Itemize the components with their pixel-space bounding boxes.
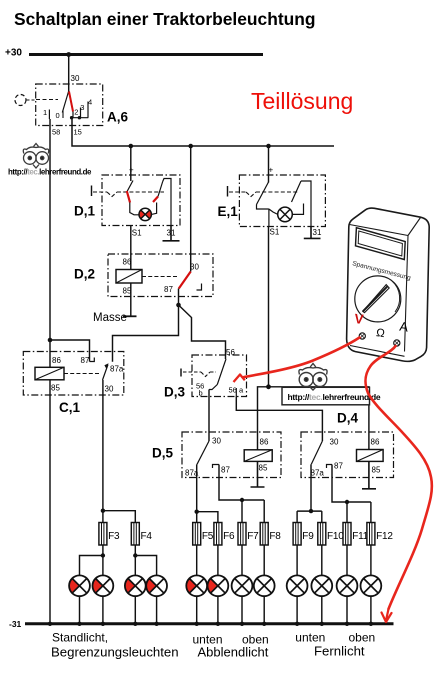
junction dot C1-85 on minus bus (48, 622, 52, 626)
A6 actuator link dashes (27, 99, 36, 101)
E1 actuator T-bar (227, 186, 229, 197)
wire D4 87a down (310, 464, 312, 511)
multimeter jack COM (394, 340, 400, 346)
svg-text:b: b (199, 389, 203, 398)
svg-text:V: V (354, 311, 365, 327)
svg-text:unten: unten (295, 631, 325, 645)
wire D3 56b down to D5 30 (208, 390, 210, 442)
D1 switch arm1 black (127, 181, 133, 193)
watermark owl right (299, 364, 327, 391)
svg-text:87: 87 (334, 462, 343, 471)
svg-text:56: 56 (229, 386, 237, 395)
relay D2 box (108, 254, 213, 297)
lamp E1 cross (280, 209, 290, 219)
svg-text:86: 86 (52, 356, 61, 365)
watermark owl left (23, 144, 48, 169)
wire D5 coil 85 to ground (251, 461, 265, 487)
wire D3 56a down right to D4 30 (236, 397, 322, 442)
wire D1 S1 down to D2 coil 86 (130, 226, 132, 270)
lamp L6 (207, 578, 217, 593)
fuse F12 (367, 523, 375, 546)
svg-text:S1: S1 (132, 229, 142, 238)
wire lamp L5 to minus bus (196, 596, 198, 623)
wire D1 feed (130, 146, 132, 181)
wire lamp L3 to minus bus (134, 596, 136, 623)
lamp L3 (125, 578, 135, 593)
C1 87 hook (90, 358, 95, 362)
fuse feed bridge F9 F10 (309, 509, 313, 513)
fuse F5 (193, 523, 201, 546)
svg-text:A,6: A,6 (107, 110, 129, 125)
svg-text:87: 87 (221, 466, 230, 475)
D1 switch arm2 red (153, 197, 158, 203)
lamp L7 (232, 575, 253, 596)
lamp L10 (311, 575, 332, 596)
relay D5 box (182, 432, 281, 478)
fuse F10 (318, 523, 326, 546)
junction below D2 (176, 303, 181, 308)
multimeter display window outer (356, 228, 406, 260)
svg-text:F3: F3 (108, 531, 120, 542)
wire D2 30 feed (190, 146, 192, 272)
wire D5 87 down right to F7 F8 (219, 465, 264, 501)
svg-text:86: 86 (371, 438, 380, 447)
svg-text:Fernlicht: Fernlicht (314, 644, 365, 659)
red probe tip at 56a (234, 375, 245, 383)
D1 wire arm1 to lamp (130, 203, 139, 215)
lamp D1 cross (141, 210, 150, 219)
multimeter dial circle (355, 276, 401, 322)
wire terminal 58 down to C1 coil 86 (49, 119, 51, 367)
A6 switch arm red to 2 (69, 92, 73, 112)
C1 switch arm with arrow to 87a (103, 365, 109, 381)
lamp unit D1 box (102, 175, 180, 226)
D2 spare terminal hook (197, 284, 202, 291)
svg-text:87: 87 (164, 285, 173, 294)
C1 dashed link (64, 373, 100, 375)
wire branch diagonal to D3 (179, 305, 226, 359)
svg-text:F10: F10 (327, 531, 344, 542)
lamp L9 (287, 575, 308, 596)
wire lamp L8 to minus bus (263, 596, 265, 623)
watermark url right box (282, 387, 370, 405)
E1 dashed link with notch (229, 192, 298, 197)
E1 switch arm2 (292, 181, 302, 202)
svg-text:Schaltplan einer Traktorbeleuc: Schaltplan einer Traktorbeleuchtung (14, 9, 316, 29)
D1 switch arm1 red (127, 191, 130, 203)
lamp L11 (337, 575, 358, 596)
relay coil D4 (357, 450, 384, 462)
fuse F9 (293, 523, 301, 546)
A6 inner dashed link (36, 99, 58, 101)
wire junction to D5 coil 86 (258, 387, 269, 450)
wire F6 to lamp (217, 545, 219, 575)
svg-text:S1: S1 (270, 228, 280, 237)
switch D3 box (192, 355, 247, 397)
wire F3 to lamp pair bridge (102, 545, 104, 575)
D1 wire arm2 top to terminal 31 (163, 179, 171, 226)
junction dot D2-30 feed (188, 144, 193, 149)
svg-text:F4: F4 (141, 531, 153, 542)
D5 switch arm (197, 441, 209, 464)
relay D4 box (301, 432, 394, 478)
lamp D1 red left sector (139, 210, 145, 219)
wire E1 S1 down to junction (268, 227, 270, 387)
wire lamp L7 to minus bus (241, 596, 243, 623)
lamp D1 circle (139, 208, 151, 220)
lamp L5 (186, 578, 196, 593)
D1 switch arm2 black (158, 182, 163, 197)
wire lamp L4 to minus bus (156, 596, 158, 623)
wire F4 to lamp pair bridge (134, 545, 136, 575)
multimeter bottom inner edge (350, 346, 405, 357)
svg-text:F7: F7 (247, 531, 259, 542)
wire lamp L9 to minus bus (296, 596, 298, 623)
svg-text:F8: F8 (269, 531, 281, 542)
wire lamp L12 to minus bus (370, 596, 372, 623)
wire D2 common down (178, 289, 180, 306)
D5 87 hook (213, 465, 220, 469)
svg-text:56: 56 (226, 348, 235, 357)
D2 switch arm red (179, 272, 191, 289)
svg-text:D,5: D,5 (152, 446, 174, 461)
svg-text:D,2: D,2 (74, 267, 95, 282)
wire F10 to lamp (321, 545, 323, 575)
junction E1-S1 D-coil feed (266, 384, 271, 389)
multimeter display window inner (358, 231, 402, 256)
D1 actuator T-bar (91, 186, 93, 197)
D4 switch arm (311, 441, 322, 464)
D3 56b elbow (209, 385, 217, 390)
svg-text:D,4: D,4 (337, 411, 359, 426)
relay coil D5 (244, 450, 272, 462)
svg-text:86: 86 (260, 438, 269, 447)
wire lamp L6 to minus bus (217, 596, 219, 623)
fuse F4 (131, 523, 139, 546)
fuse drops F11 F12 (346, 502, 348, 523)
svg-text:15: 15 (74, 128, 82, 137)
svg-text:87a: 87a (110, 365, 124, 374)
lamp L1 (69, 578, 79, 593)
svg-text:+: + (269, 166, 274, 175)
wire D5 87a down (196, 464, 198, 511)
wire F9 to lamp (296, 545, 298, 575)
multimeter dial arc (392, 281, 400, 312)
fuse F8 (260, 523, 268, 546)
E1 ground 31 (304, 227, 321, 239)
wire branch to C1 87a (113, 305, 179, 362)
svg-text:C,1: C,1 (59, 400, 81, 415)
svg-text:F6: F6 (223, 531, 235, 542)
wire F11 to lamp (346, 545, 348, 575)
svg-text:1: 1 (43, 108, 47, 117)
fuse F6 (214, 523, 222, 546)
svg-text:30: 30 (330, 438, 339, 447)
svg-text:Standlicht,: Standlicht, (52, 631, 108, 645)
svg-text:-31: -31 (9, 619, 22, 629)
svg-text:30: 30 (212, 437, 221, 446)
multimeter pointer (363, 285, 389, 313)
svg-text:58: 58 (52, 128, 60, 137)
wire lamp L10 to minus bus (321, 596, 323, 623)
D3 switch arm (217, 359, 226, 385)
svg-text:Teillösung: Teillösung (251, 88, 353, 114)
svg-text:oben: oben (349, 631, 376, 645)
multimeter face ridge right (405, 218, 421, 352)
D4 87 hook (327, 465, 333, 469)
D3 dashed link with notch (183, 372, 216, 377)
D2 dashed link coil to switch (142, 276, 177, 278)
lamp D1 red right sector (145, 210, 151, 219)
A6 pin 0 tick (62, 111, 64, 119)
switch A6 box (36, 84, 103, 126)
wire junction to D4 coil 86 (269, 387, 369, 450)
wire F8 to lamp (263, 545, 265, 575)
wire terminal 15 down then right: feed bus (72, 118, 334, 146)
svg-text:http://tec.lehrerfreund.de: http://tec.lehrerfreund.de (8, 168, 92, 177)
wire F12 to lamp (370, 545, 372, 575)
junction dot D1 feed (129, 144, 134, 149)
svg-text:87a: 87a (311, 469, 325, 478)
multimeter face ridge top (350, 225, 409, 236)
svg-text:F12: F12 (376, 531, 393, 542)
E1 switch arm1 (257, 182, 269, 205)
E1 wire lamp right hook (292, 204, 303, 215)
svg-text:E,1: E,1 (218, 204, 239, 219)
wire lamp L2 to minus bus (102, 596, 104, 623)
wire F5 to lamp (196, 545, 198, 575)
svg-text:Begrenzungsleuchten: Begrenzungsleuchten (51, 645, 179, 660)
wire to C1 87 (50, 340, 90, 362)
lamp L4 (146, 578, 156, 593)
wire from +30 to switch A6 terminal 30 (68, 55, 70, 92)
relay C1 box (23, 352, 124, 396)
svg-text:D,3: D,3 (164, 385, 186, 400)
wire bus +30 (29, 53, 263, 56)
red test lead right jack to minus bus arrow (365, 346, 431, 609)
svg-text:F5: F5 (202, 531, 214, 542)
fuse feed bridge F5 F6 (195, 510, 199, 514)
fuse F7 (238, 523, 246, 546)
multimeter body (347, 208, 430, 361)
svg-text:0: 0 (56, 111, 60, 120)
ground Masse bar (123, 315, 137, 317)
svg-text:87: 87 (81, 356, 90, 365)
svg-text:30: 30 (105, 385, 114, 394)
A6 pin 1 tick (48, 110, 50, 120)
red test lead left jack to probe at D3 56a (244, 338, 360, 378)
A6 pins 2-3-4 staircase (71, 102, 89, 118)
svg-text:+30: +30 (5, 48, 22, 59)
svg-text:85: 85 (51, 384, 60, 393)
E1 wire arm1 junction S1 lamp (257, 205, 278, 227)
fuse F3 (99, 523, 107, 546)
lamp E1 circle (278, 207, 293, 222)
svg-text:30: 30 (71, 74, 80, 83)
svg-text:F9: F9 (302, 531, 314, 542)
wire D2 coil 85 to Masse (130, 283, 132, 316)
svg-text:86: 86 (123, 258, 132, 267)
lamp L8 (254, 575, 275, 596)
A6 actuator circle (15, 95, 26, 106)
svg-text:4: 4 (88, 98, 92, 107)
red arrowhead at minus bus (382, 609, 392, 622)
svg-text:2: 2 (74, 108, 78, 117)
D1 ground 31 (163, 226, 180, 241)
junction dot E1 feed (266, 144, 271, 149)
wire D3 56a tick (235, 388, 237, 397)
wire E1 feed (268, 146, 270, 183)
D1 wire lamp to arm2 (151, 203, 156, 215)
D3 actuator T-bar (180, 369, 182, 377)
wire F7 to lamp (241, 545, 243, 575)
E1 wire arm2 to 31 (301, 181, 311, 227)
wire lamp L11 to minus bus (346, 596, 348, 623)
svg-text:85: 85 (372, 466, 381, 475)
fuse F11 (343, 523, 351, 546)
wire C1 coil 85 down to minus bus (49, 380, 51, 623)
svg-text:Abblendlicht: Abblendlicht (198, 645, 269, 660)
svg-text:31: 31 (313, 228, 322, 237)
D1 dashed link with notch (93, 192, 164, 197)
junction dot on 58-line for C1 87 (48, 338, 53, 343)
relay coil C1 (35, 367, 64, 380)
lamp unit E1 box (239, 175, 325, 227)
fuse feed bridge F3 F4 (101, 509, 105, 513)
svg-text:Masse: Masse (93, 312, 127, 324)
svg-text:3: 3 (80, 103, 84, 112)
relay coil D2 (116, 270, 142, 284)
lamp L2 (92, 578, 102, 593)
fuse drops F7 F8 (241, 500, 243, 523)
svg-text:85: 85 (259, 464, 268, 473)
wire D4 87 down right to F11 F12 (332, 465, 371, 503)
lamp L12 (361, 575, 382, 596)
svg-text:D,1: D,1 (74, 204, 96, 219)
junction on +30 bus (66, 52, 71, 57)
multimeter jack V (359, 333, 365, 339)
A6 switch arm black to 0 (62, 91, 68, 113)
wire lamp L1 to minus bus (79, 596, 81, 623)
wire C1 common 30 down to fuse feed (102, 380, 104, 511)
wire D4 coil 85 to ground (362, 461, 376, 488)
wire bus -31 (25, 622, 394, 625)
